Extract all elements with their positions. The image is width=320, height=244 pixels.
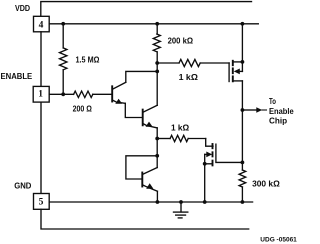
wire VDD top rail: [41, 2, 252, 17]
svg-text:200 kΩ: 200 kΩ: [168, 37, 194, 46]
wire 1k jog to M2: [206, 139, 213, 147]
svg-text:1.5 MΩ: 1.5 MΩ: [76, 55, 100, 64]
svg-text:VDD: VDD: [15, 4, 30, 13]
junction node A at Q1 collector: [155, 70, 159, 74]
wire Q3 emitter to ground rail: [156, 191, 158, 202]
wire M2 source to ground rail: [204, 164, 206, 202]
wire VDD distribution rail: [49, 23, 258, 25]
junction on VDD rail at 200k branch: [155, 22, 159, 26]
svg-text:1: 1: [38, 90, 43, 100]
junction gnd rail ground symbol: [179, 200, 183, 204]
wire M1 drain to output node: [241, 81, 243, 162]
svg-text:Enable: Enable: [269, 107, 294, 116]
junction ENABLE line / 1.5M: [61, 92, 65, 96]
wire pin column 1 to 5: [40, 102, 42, 193]
junction 300k top: [241, 161, 245, 165]
wire ENABLE pin to 200 ohm: [49, 93, 73, 95]
junction output tap: [241, 108, 245, 112]
svg-text:200 Ω: 200 Ω: [73, 104, 93, 113]
svg-text:GND: GND: [14, 181, 31, 190]
junction node A at 1k branch: [155, 61, 159, 65]
junction M1 source: [241, 60, 245, 64]
transistor Q1: [112, 82, 126, 103]
wire Q1 collector to node A: [126, 71, 157, 82]
junction on VDD rail at output branch: [241, 22, 245, 26]
svg-text:5: 5: [39, 198, 44, 208]
junction on VDD rail at 1.5M branch: [61, 22, 65, 26]
svg-text:4: 4: [39, 20, 44, 30]
svg-text:UDG -05061: UDG -05061: [260, 237, 297, 244]
junction node B at Q3 base loop: [155, 154, 159, 158]
wire 200 ohm to Q1 base: [93, 93, 112, 95]
junction node B at 1k branch: [155, 137, 159, 141]
resistor 1 kOhm (to M2 gate): [157, 123, 206, 141]
svg-text:1 kΩ: 1 kΩ: [171, 123, 190, 132]
svg-text:300 kΩ: 300 kΩ: [252, 179, 280, 188]
junction gnd rail 300k: [241, 200, 245, 204]
node output To Enable Chip: [242, 97, 294, 126]
pin 1 (ENABLE): [33, 86, 49, 102]
wire Q1 emitter to Q2 base: [125, 103, 142, 117]
mosfet M1: [229, 61, 242, 82]
wire node A vertical (collectors / 200k / 1k): [156, 63, 158, 105]
wire pin column 4 to 1: [40, 32, 42, 87]
svg-text:Chip: Chip: [269, 117, 287, 126]
wire pin 5 bottom line: [41, 209, 249, 229]
resistor 300 kOhm: [239, 162, 280, 202]
svg-text:1 kΩ: 1 kΩ: [179, 73, 199, 82]
resistor 1.5 MOhm pull-up: [60, 24, 100, 95]
wire VDD rail to M1 source/body: [241, 24, 243, 72]
ground: [174, 202, 188, 218]
svg-text:To: To: [269, 97, 276, 106]
wire node B vertical (Q2 emitter / 1k / Q3): [156, 128, 158, 168]
junction gnd rail Q3: [156, 200, 160, 204]
wire Q3 base-collector loop: [126, 156, 157, 179]
resistor 200 kOhm: [153, 24, 193, 63]
resistor 200 Ohm: [73, 91, 93, 113]
transistor Q3: [142, 168, 157, 192]
mosfet M2: [203, 144, 243, 166]
resistor 1 kOhm (to M1 gate): [157, 59, 229, 81]
junction gnd rail M2 source: [203, 200, 207, 204]
wire ground rail: [49, 201, 252, 203]
pin 4 (VDD): [34, 16, 50, 32]
transistor Q2: [143, 105, 158, 128]
pin 5 (GND): [34, 194, 50, 210]
svg-text:ENABLE: ENABLE: [1, 72, 33, 81]
